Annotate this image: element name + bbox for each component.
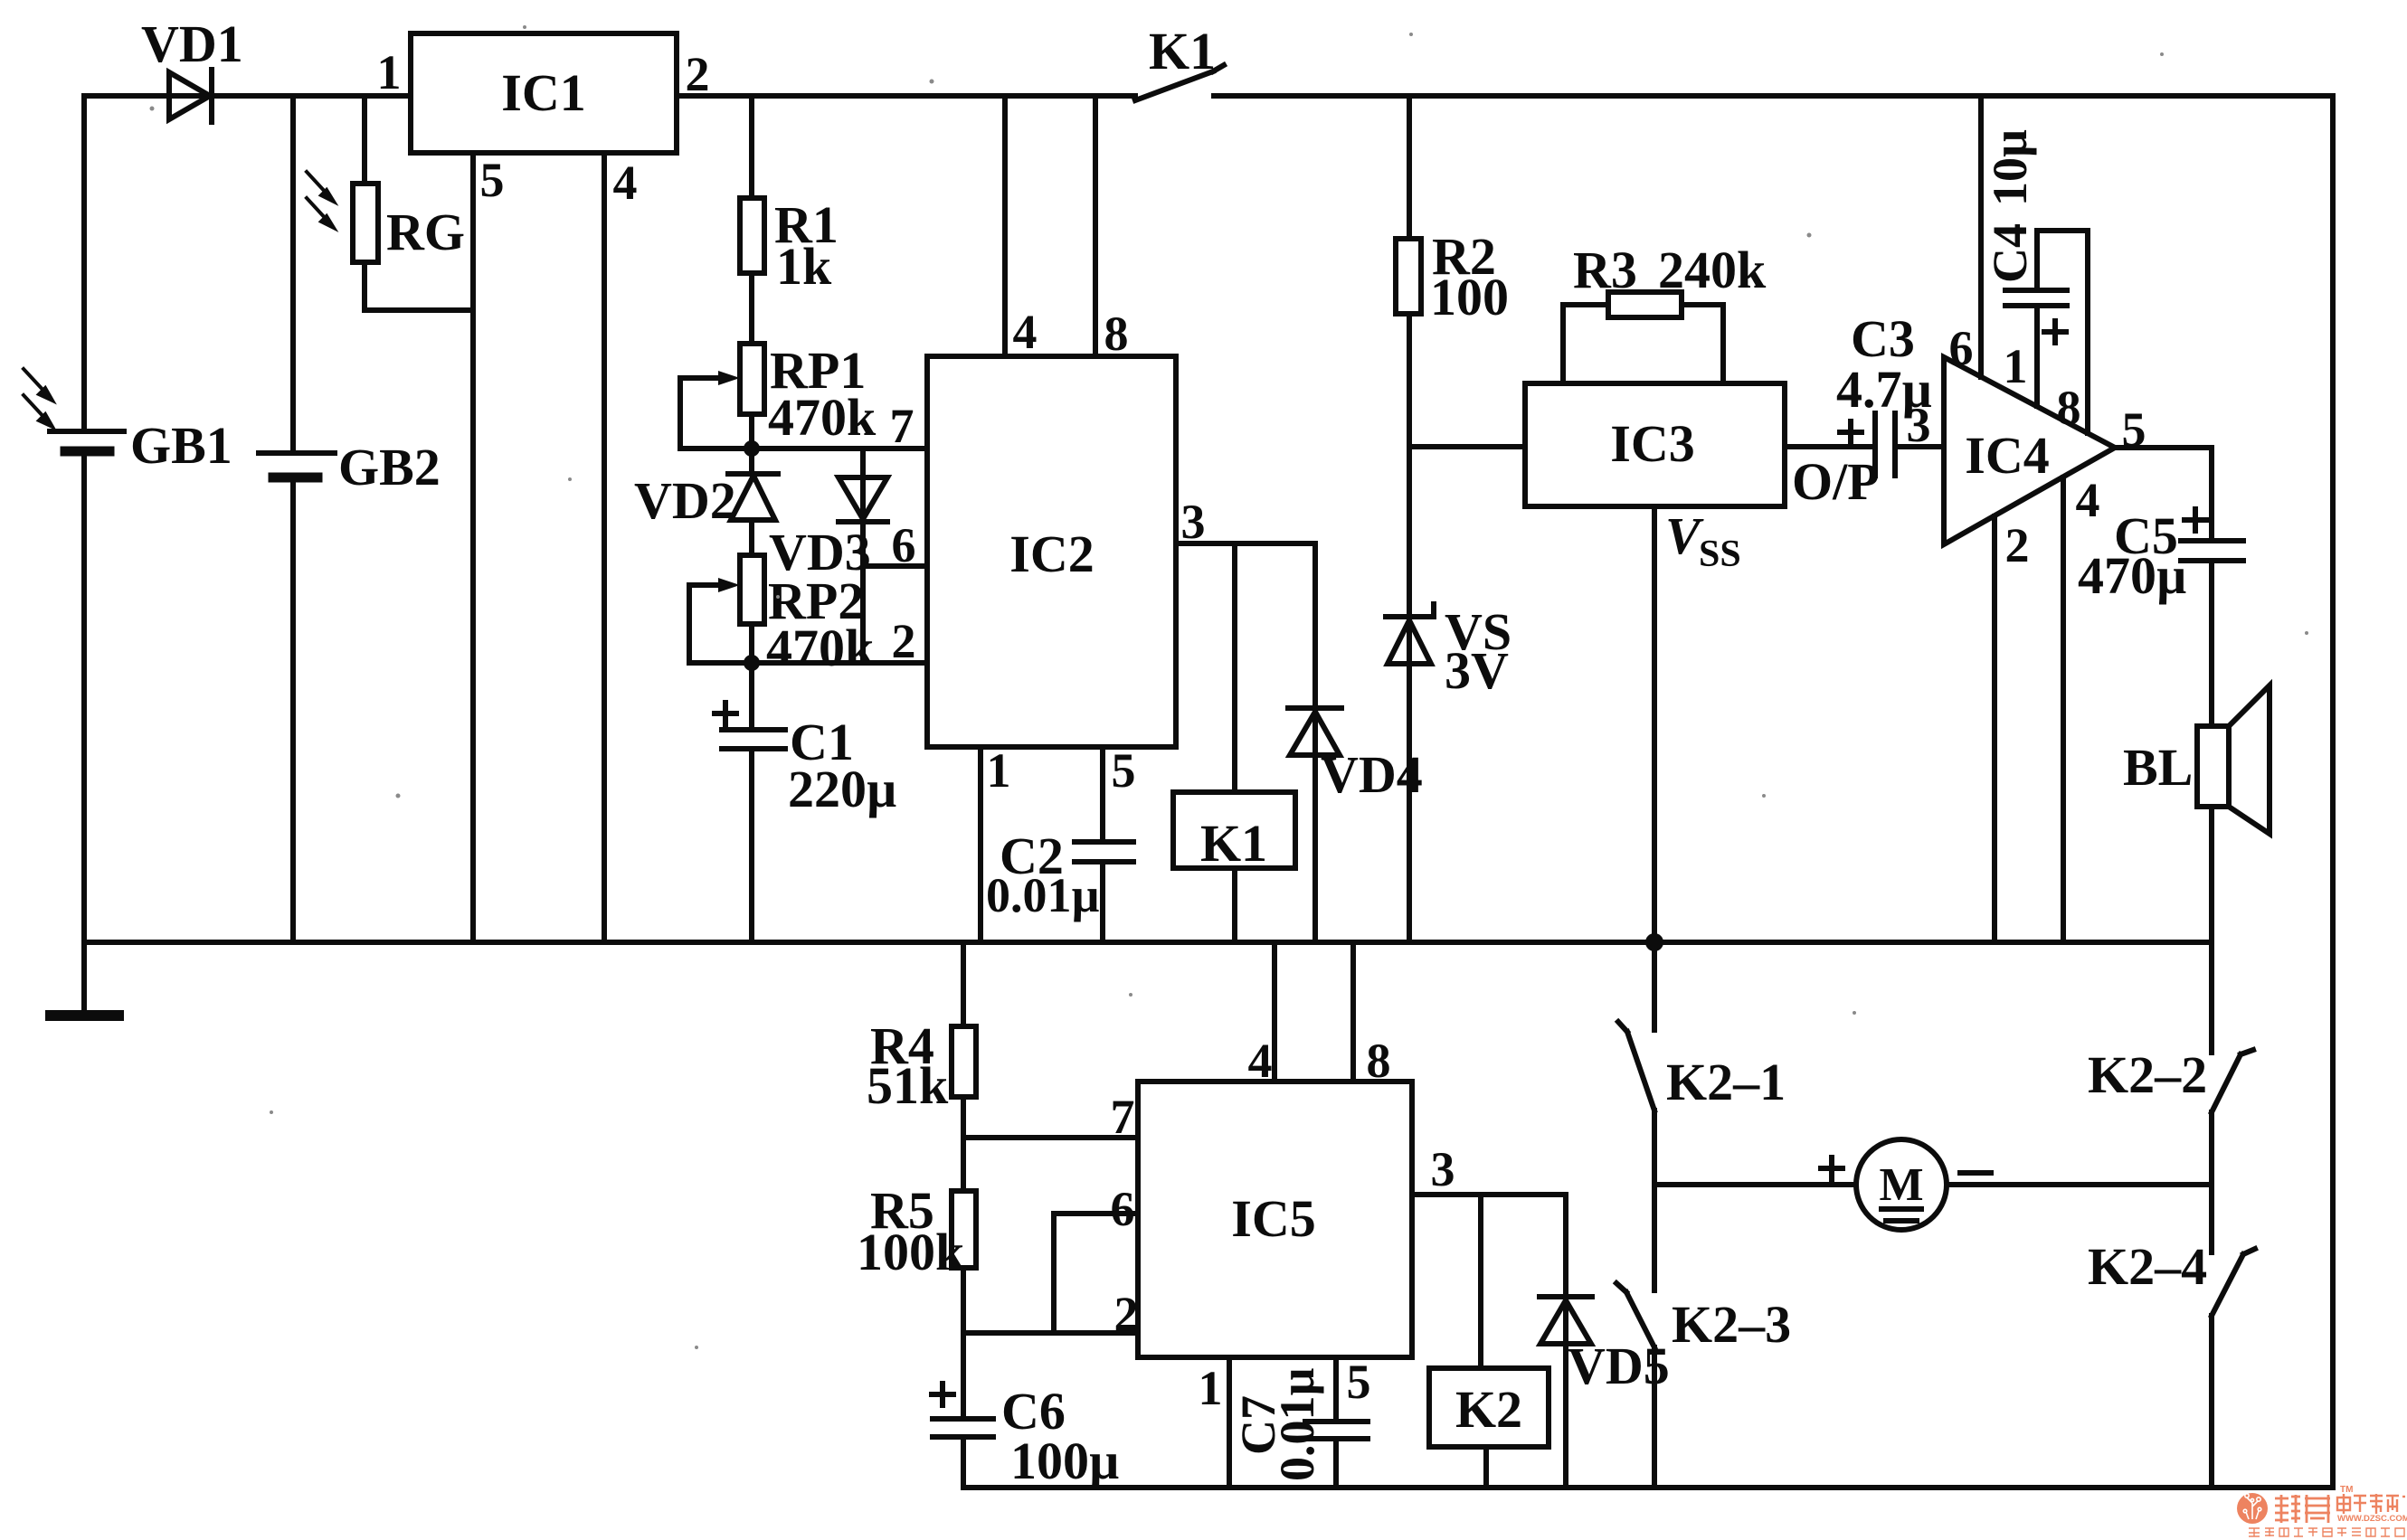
svg-text:GB2: GB2: [338, 438, 441, 496]
wire: right border down: [2330, 96, 2336, 1488]
wire: C5 to speaker BL: [2209, 561, 2214, 726]
svg-text:470k: 470k: [768, 388, 877, 447]
relay coil K1: [1173, 792, 1295, 868]
wire: K1 coil to ground bus: [1232, 868, 1237, 942]
svg-text:1: 1: [377, 45, 402, 99]
svg-text:4: 4: [2076, 473, 2100, 527]
wire: pin6 stub: [863, 563, 927, 569]
wire: top rail right segment after K1: [1214, 93, 2333, 99]
wire: VD3 vertical line: [860, 449, 866, 663]
wire: K2 coil branch: [1478, 1195, 1483, 1368]
wire: IC4 pin2 line to ground bus: [1992, 516, 1997, 942]
zener diode VS: [1386, 604, 1434, 664]
svg-text:O/P: O/P: [1792, 452, 1880, 511]
wire: GB2 branch lower: [290, 477, 296, 942]
wire: IC5 pin2 wire: [963, 1330, 1138, 1336]
potentiometer RP2: [689, 555, 764, 624]
svg-text:C4: C4: [1983, 223, 2037, 283]
svg-text:3V: 3V: [1445, 641, 1509, 700]
wire: IC2 pin8 line from top rail: [1093, 96, 1098, 356]
photoresistor RG: [353, 184, 378, 262]
svg-text:7: 7: [1111, 1090, 1135, 1144]
wire: IC5 pin5 line to C7: [1333, 1357, 1339, 1422]
svg-text:0.01µ: 0.01µ: [1270, 1367, 1324, 1481]
svg-text:K2: K2: [1455, 1380, 1522, 1439]
wire: RP1 wiper loop: [680, 378, 752, 449]
capacitor C4: [2005, 290, 2067, 343]
svg-text:SS: SS: [1699, 534, 1741, 575]
svg-text:2: 2: [2005, 518, 2030, 572]
svg-text:BL: BL: [2123, 738, 2193, 797]
resistor R4: [952, 1026, 976, 1097]
svg-text:6: 6: [1949, 321, 1974, 375]
svg-text:K2–2: K2–2: [2088, 1045, 2207, 1104]
svg-text:1k: 1k: [776, 237, 832, 296]
svg-text:100µ: 100µ: [1010, 1431, 1119, 1490]
wire: R4 branch from ground bus: [961, 942, 966, 1026]
svg-text:K2–1: K2–1: [1666, 1053, 1786, 1111]
svg-text:5: 5: [2122, 402, 2146, 457]
wire: RP2 wiper loop: [689, 585, 752, 663]
wire: C1 to ground bus: [749, 749, 754, 942]
resistor R3: [1608, 292, 1682, 317]
svg-text:R3: R3: [1573, 241, 1637, 299]
relay coil K2: [1429, 1368, 1549, 1447]
svg-text:1: 1: [2004, 339, 2028, 393]
svg-text:IC4: IC4: [1965, 426, 2049, 485]
wire: RG to IC1 pin5 line: [365, 307, 473, 313]
wire: IC2 pin3 output wire: [1176, 541, 1315, 546]
wire: motor wire left: [1654, 1182, 1856, 1187]
svg-text:51k: 51k: [867, 1056, 949, 1115]
svg-text:8: 8: [1367, 1034, 1391, 1088]
timer IC2 box: [927, 356, 1176, 747]
capacitor C3: [1840, 413, 1895, 476]
svg-text:VD5: VD5: [1568, 1337, 1670, 1395]
wire: C2 to ground bus: [1100, 862, 1105, 942]
wire: VD4 branch vertical: [1312, 543, 1318, 942]
svg-text:3: 3: [1181, 495, 1206, 549]
svg-text:100k: 100k: [857, 1223, 965, 1281]
wire: R2 branch from top rail: [1407, 96, 1412, 239]
wire: IC5 pin6 stub: [1054, 1214, 1138, 1333]
wire: IC4 pin4 line to ground bus: [2061, 477, 2066, 942]
wire: ground bus (middle horizontal rail): [84, 940, 2212, 945]
wire: K2-1 to motor wire: [1652, 1110, 1657, 1185]
wire: K2-2 to motor wire: [2209, 1112, 2214, 1185]
diode VD1: [169, 70, 212, 122]
capacitor C7: [1305, 1422, 1368, 1439]
svg-text:10µ: 10µ: [1983, 129, 2037, 206]
svg-text:7: 7: [890, 399, 914, 453]
battery GB1 (solar): [50, 431, 124, 451]
motor M: [1821, 1139, 1991, 1230]
scan speckle dots (decorative): [150, 25, 2309, 1349]
svg-text:RG: RG: [386, 203, 465, 261]
svg-text:6: 6: [1111, 1182, 1135, 1236]
svg-text:4: 4: [613, 156, 638, 210]
svg-text:IC1: IC1: [501, 63, 585, 122]
svg-text:8: 8: [2057, 381, 2081, 435]
light arrows into GB1: [24, 369, 52, 427]
svg-text:K2–3: K2–3: [1672, 1295, 1791, 1354]
svg-text:5: 5: [1347, 1355, 1371, 1409]
svg-text:K1: K1: [1200, 814, 1267, 873]
svg-text:240k: 240k: [1658, 241, 1767, 299]
amplifier IC4 triangle: [1944, 357, 2115, 544]
wire: bottom bus: [963, 1485, 2333, 1490]
svg-text:K2–4: K2–4: [2088, 1237, 2207, 1296]
capacitor C1: [715, 703, 785, 749]
wire: RG branch from top rail: [362, 96, 367, 184]
potentiometer RP1: [680, 344, 764, 414]
wire: pin7 wire to IC2: [752, 446, 927, 451]
resistor R1: [740, 198, 764, 273]
light arrows into RG: [307, 172, 334, 228]
svg-text:8: 8: [1104, 307, 1129, 361]
watermark slogan row (stylized): [2249, 1528, 2404, 1536]
svg-text:GB1: GB1: [130, 416, 232, 475]
svg-text:470µ: 470µ: [2078, 546, 2186, 605]
net label Vss: [1665, 506, 1741, 575]
node junction at RP2 / pin2: [744, 655, 760, 671]
svg-text:M: M: [1879, 1159, 1923, 1211]
wire: K1 coil branch down: [1232, 543, 1237, 792]
wire: IC2 pin4 line from top rail: [1002, 96, 1008, 356]
wire: RG bottom down: [362, 262, 367, 310]
speaker BL: [2197, 685, 2270, 834]
svg-text:5: 5: [480, 153, 505, 207]
wire: R1 to RP1: [749, 273, 754, 344]
switch K2-4: [2212, 1249, 2255, 1316]
op-amp/regulator IC1 box: [411, 33, 677, 153]
capacitor C6: [932, 1384, 993, 1437]
node junction Vss/ground bus: [1645, 933, 1663, 951]
melody IC3 box: [1525, 383, 1785, 506]
wire: C4 top bridge to pin8: [2037, 231, 2088, 433]
wire: IC2 pin5 line upper: [1100, 747, 1105, 842]
wire: R2 line to IC3 input: [1409, 444, 1525, 449]
svg-text:VD3: VD3: [769, 523, 871, 581]
svg-text:K1: K1: [1149, 22, 1216, 80]
wire: IC4 pin1 line up to C4: [2034, 306, 2040, 406]
svg-text:IC5: IC5: [1231, 1189, 1315, 1248]
diode VD3: [839, 477, 887, 522]
wire: IC4 pin5 output to C5 branch: [2115, 445, 2212, 450]
wire: speaker down through bus to K2-2: [2209, 807, 2214, 1053]
svg-text:1: 1: [987, 743, 1011, 798]
svg-text:4: 4: [1248, 1034, 1273, 1088]
capacitor C2: [1075, 842, 1133, 862]
wire: K2-3 line from motor wire: [1652, 1185, 1657, 1290]
wire: VD2 to RP2: [749, 520, 754, 555]
wire: R2 line down to ground bus: [1407, 314, 1412, 942]
svg-text:1: 1: [1199, 1361, 1223, 1415]
svg-text:3: 3: [1431, 1142, 1455, 1196]
watermark text 电子市场网 (stylized): [2337, 1494, 2405, 1515]
battery GB2: [259, 453, 335, 477]
wire: output down to C5: [2209, 448, 2214, 541]
wire: left border upper (to GB1): [81, 96, 87, 431]
wire: R5 to C6: [961, 1268, 966, 1419]
svg-text:WWW.DZSC.COM: WWW.DZSC.COM: [2337, 1514, 2407, 1524]
ground symbol: [51, 942, 118, 1016]
wire: IC5 pin4 line from ground bus: [1272, 942, 1277, 1082]
wire: R3 right leg: [1682, 305, 1723, 383]
diode VD4: [1288, 708, 1341, 755]
switch K1 blade: [1135, 65, 1224, 100]
wire: K2 coil to bottom bus: [1483, 1447, 1489, 1488]
diode VD2: [728, 474, 778, 520]
watermark text 维库 (stylized): [2275, 1495, 2330, 1523]
timer IC5 box: [1138, 1082, 1412, 1357]
svg-text:470k: 470k: [766, 619, 875, 677]
wire: IC5 pin7 wire: [963, 1135, 1138, 1140]
wire: IC5 pin8 line from ground bus: [1350, 942, 1356, 1082]
svg-text:2: 2: [892, 614, 916, 668]
svg-text:2: 2: [1114, 1287, 1139, 1341]
wire: IC4 pin6 line from top rail: [1978, 96, 1984, 377]
wire: C3 to IC4 pin3: [1895, 444, 1944, 449]
wire: left border lower (GB1 to ground bus): [81, 451, 87, 942]
wire: IC3 Vss line to ground bus: [1652, 506, 1657, 942]
wire: R4 to R5: [961, 1097, 966, 1191]
svg-text:5: 5: [1112, 743, 1136, 798]
switch K2-1: [1618, 1022, 1654, 1110]
wire: VD5 line down: [1563, 1195, 1568, 1488]
svg-text:VD2: VD2: [634, 471, 736, 530]
capacitor C5: [2181, 509, 2243, 561]
wire: K2-4 line from motor wire: [2209, 1185, 2214, 1252]
svg-text:IC3: IC3: [1610, 414, 1694, 473]
wire: IC3 O/P output to C3: [1785, 444, 1875, 449]
svg-text:6: 6: [892, 518, 916, 572]
wire: IC1 pin5 line to ground bus: [470, 153, 476, 942]
wire: K2-4 to bottom bus: [2209, 1316, 2214, 1488]
wire: motor wire right: [1947, 1182, 2212, 1187]
wire: R3 left leg: [1563, 305, 1608, 383]
wire: IC5 pin3 output wire: [1412, 1192, 1566, 1197]
wire: RP1 to VD2: [749, 414, 754, 474]
svg-text:4: 4: [1013, 305, 1038, 359]
wire: IC1 pin4 line to ground bus: [602, 153, 607, 942]
wire: IC5 pin1 line to bottom bus: [1227, 1357, 1232, 1488]
resistor R2: [1396, 239, 1421, 314]
svg-text:100: 100: [1430, 268, 1509, 326]
svg-text:0.01µ: 0.01µ: [986, 868, 1100, 922]
wire: IC2 pin1 line to ground bus: [978, 747, 983, 942]
diode VD5: [1540, 1297, 1592, 1344]
wire: junction to C1: [749, 663, 754, 730]
node junction at RP1 wiper / pin7: [744, 440, 760, 457]
wire: K2-1 line from ground bus: [1652, 942, 1657, 1030]
svg-text:IC2: IC2: [1009, 524, 1094, 583]
wire: K2-3 to bottom bus: [1652, 1347, 1657, 1488]
svg-text:220µ: 220µ: [788, 760, 896, 818]
wire: top supply rail left segment: [84, 93, 411, 99]
wire: GB2 branch upper: [290, 96, 296, 453]
svg-text:3: 3: [1907, 398, 1931, 452]
wire: R1 branch from top rail: [749, 96, 754, 198]
wire: C6 to bottom bus corner: [961, 1437, 966, 1488]
wire: top rail from IC1 pin2 to K1: [677, 93, 1135, 99]
resistor R5: [952, 1191, 976, 1268]
svg-text:2: 2: [686, 47, 710, 101]
wire: RP2 to junction: [749, 624, 754, 663]
switch K2-2: [2212, 1050, 2253, 1112]
switch K2-3: [1616, 1283, 1654, 1347]
wire: pin2 wire to IC2: [752, 660, 927, 666]
svg-text:VD1: VD1: [141, 14, 243, 73]
watermark logo circle: [2237, 1493, 2268, 1524]
svg-text:TM: TM: [2340, 1485, 2353, 1495]
wire: C7 to bottom bus: [1333, 1439, 1339, 1488]
